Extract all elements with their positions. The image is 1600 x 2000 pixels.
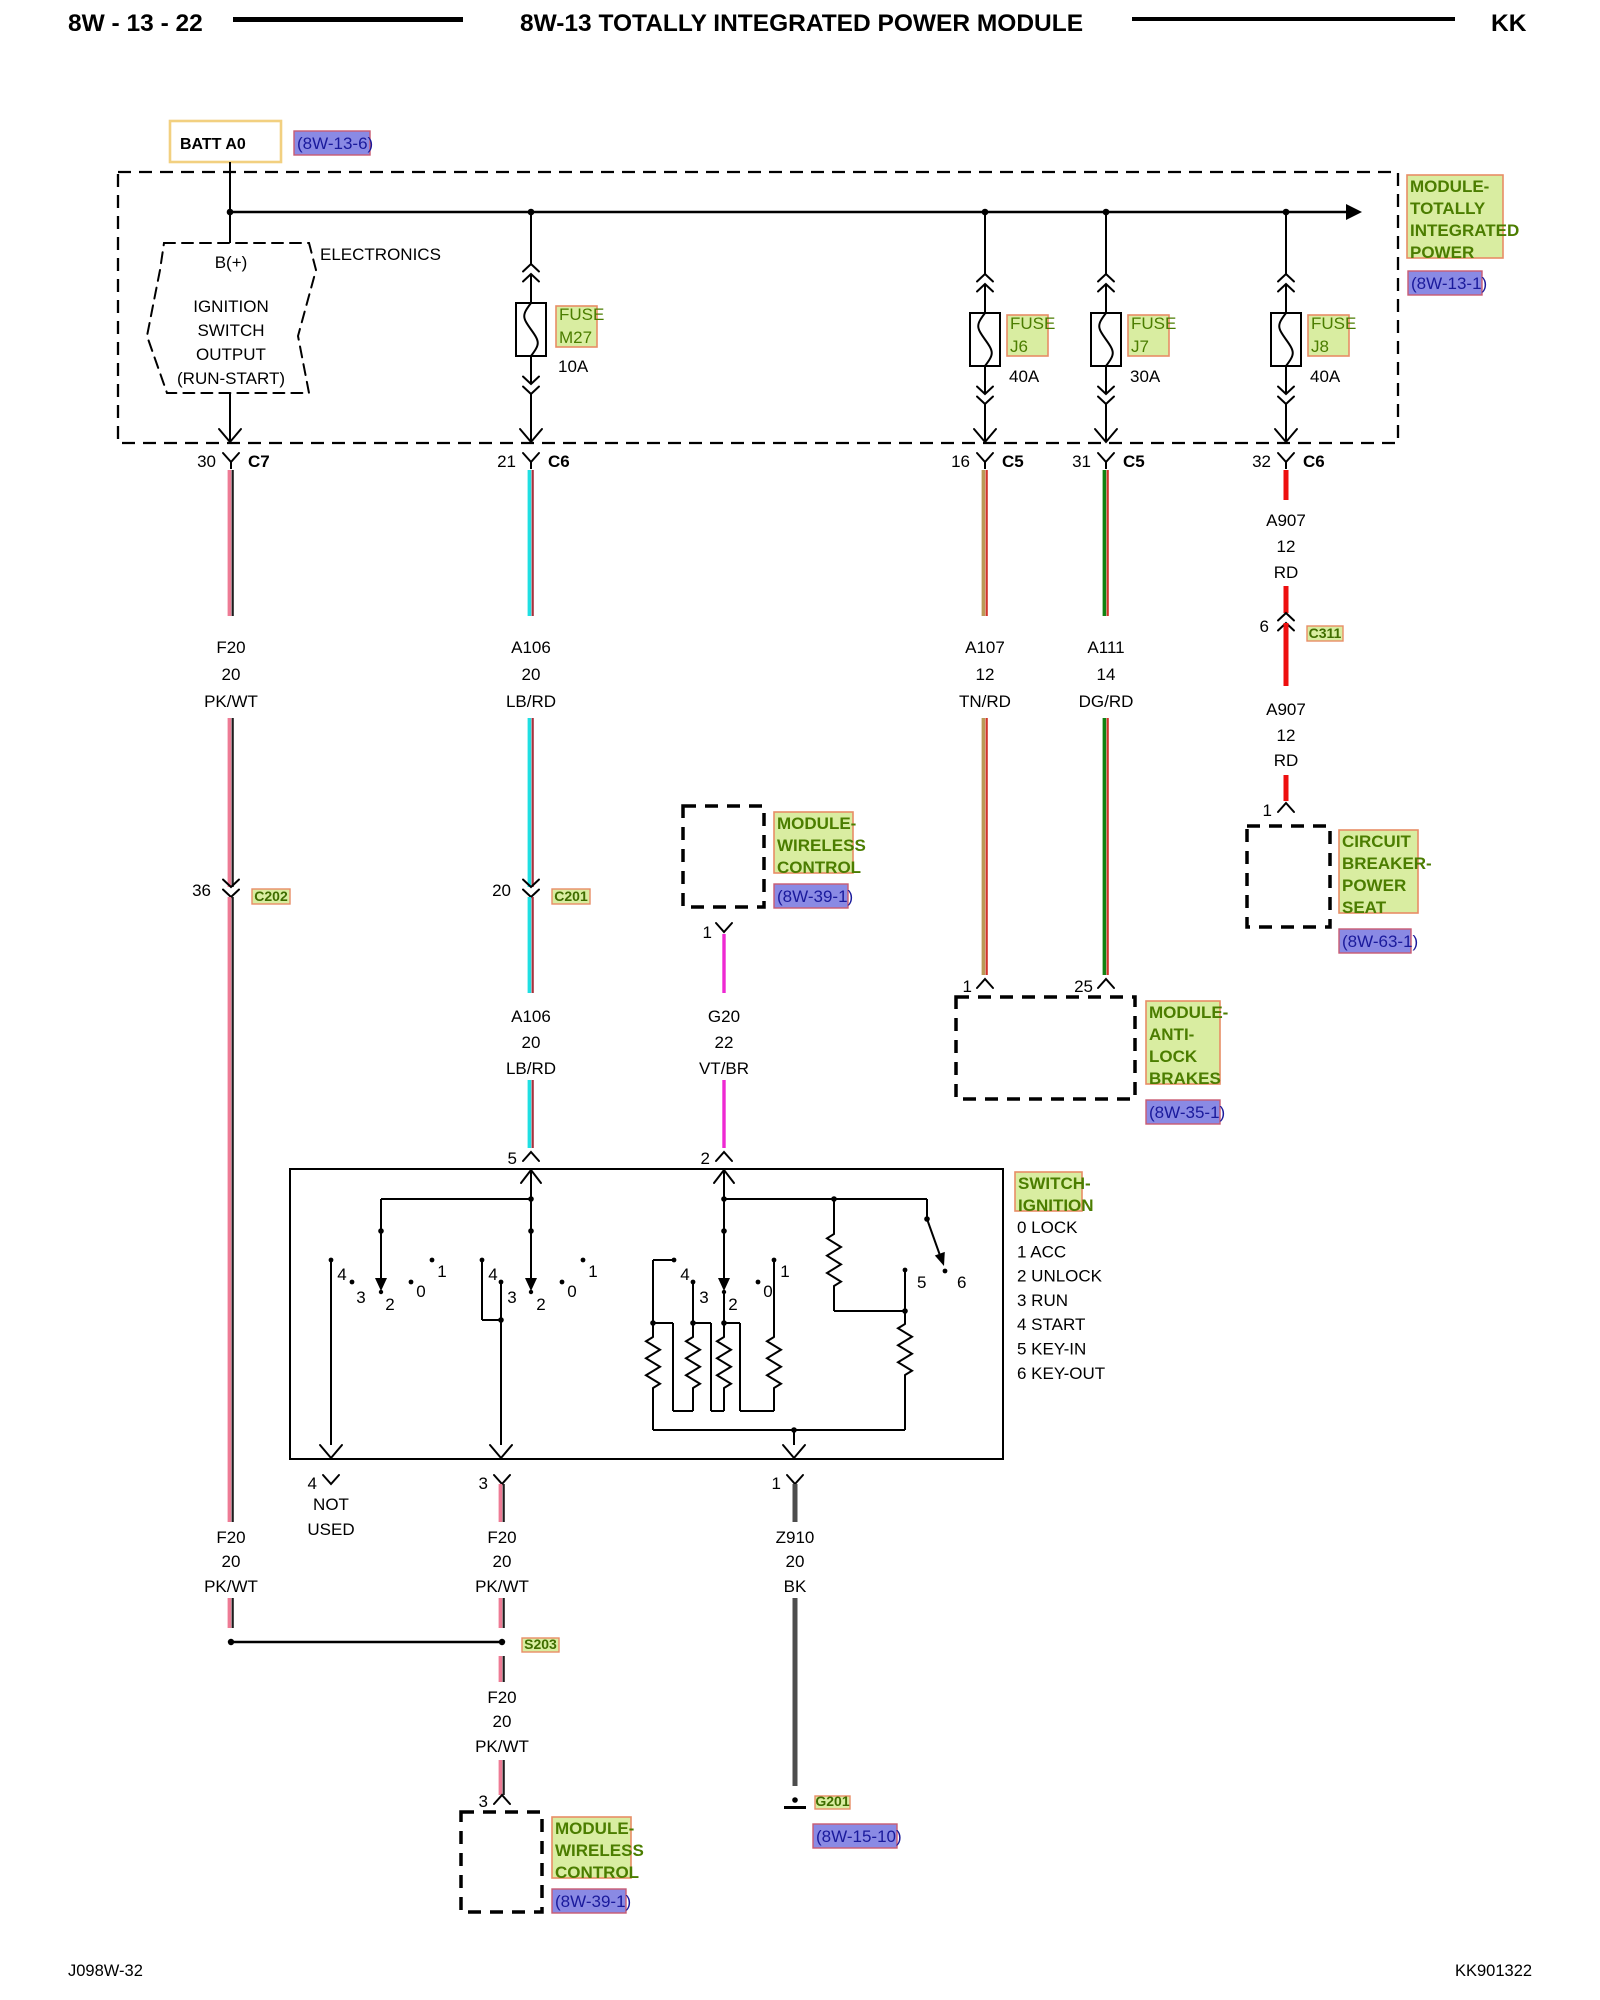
- svg-text:4: 4: [308, 1474, 317, 1493]
- rotary wafer C contact arm: [721, 1228, 727, 1234]
- svg-text:40A: 40A: [1009, 367, 1040, 386]
- label CIRCUIT BREAKER-POWER SEAT: [1339, 830, 1418, 913]
- svg-text:BRAKES: BRAKES: [1149, 1069, 1221, 1088]
- svg-text:36: 36: [192, 881, 211, 900]
- wire switch input pin5 internal: [530, 1169, 532, 1231]
- svg-text:20: 20: [786, 1552, 805, 1571]
- svg-text:NOT: NOT: [313, 1495, 349, 1514]
- wire internal top bus to key switch: [724, 1198, 927, 1200]
- wire series link R3 top to R4 bottom: [724, 1322, 740, 1324]
- svg-text:2: 2: [385, 1295, 394, 1314]
- svg-text:20: 20: [522, 1033, 541, 1052]
- svg-text:3: 3: [479, 1474, 488, 1493]
- svg-text:12: 12: [1277, 537, 1296, 556]
- svg-text:CONTROL: CONTROL: [555, 1863, 639, 1882]
- svg-text:F20: F20: [487, 1688, 516, 1707]
- svg-text:C6: C6: [548, 452, 570, 471]
- svg-text:20: 20: [493, 1712, 512, 1731]
- svg-text:CONTROL: CONTROL: [777, 858, 861, 877]
- svg-text:RD: RD: [1274, 751, 1299, 770]
- svg-text:OUTPUT: OUTPUT: [196, 345, 266, 364]
- wire wafer C position3 to resistor R2: [692, 1282, 694, 1337]
- module box MODULE-WIRELESS CONTROL dashed: [683, 806, 764, 907]
- wire A106 LB/RD segment below C201: [528, 897, 532, 993]
- svg-text:MODULE-: MODULE-: [1149, 1003, 1228, 1022]
- svg-text:C201: C201: [554, 888, 588, 904]
- svg-text:3: 3: [507, 1288, 516, 1307]
- svg-text:F20: F20: [216, 638, 245, 657]
- svg-text:8W - 13 - 22: 8W - 13 - 22: [68, 10, 203, 37]
- wire A111 DG/RD segment from C5: [1103, 470, 1107, 616]
- svg-text:0: 0: [567, 1282, 576, 1301]
- reference label 8W-63-1: [1339, 929, 1411, 953]
- svg-text:2 UNLOCK: 2 UNLOCK: [1017, 1267, 1103, 1286]
- svg-text:A907: A907: [1266, 700, 1306, 719]
- fuse J7 label: [1128, 315, 1169, 356]
- resistor R5 key lamp: [833, 1199, 835, 1234]
- wafer C contact points 4 3 2 0 1: [672, 1258, 677, 1263]
- wire F20 PK/WT segment below C202: [228, 897, 232, 1522]
- label S203: [522, 1638, 559, 1652]
- svg-text:C311: C311: [1309, 625, 1342, 641]
- svg-text:25: 25: [1074, 977, 1093, 996]
- resistor R6 key-in: [904, 1311, 906, 1324]
- svg-text:J7: J7: [1131, 337, 1149, 356]
- svg-text:A107: A107: [965, 638, 1005, 657]
- svg-text:FUSE: FUSE: [1311, 314, 1356, 333]
- label SWITCH-IGNITION: [1015, 1172, 1082, 1211]
- svg-text:A111: A111: [1087, 638, 1124, 657]
- svg-text:30A: 30A: [1130, 367, 1161, 386]
- svg-text:(8W-13-6): (8W-13-6): [297, 134, 373, 153]
- svg-text:C5: C5: [1002, 452, 1024, 471]
- svg-text:6: 6: [1260, 617, 1269, 636]
- svg-text:5: 5: [917, 1273, 926, 1292]
- svg-text:C7: C7: [248, 452, 270, 471]
- svg-text:16: 16: [951, 452, 970, 471]
- wire series link R1 top to R2 bottom: [653, 1322, 673, 1324]
- svg-text:ANTI-: ANTI-: [1149, 1025, 1194, 1044]
- svg-text:3: 3: [479, 1792, 488, 1811]
- resistor R1: [646, 1337, 660, 1388]
- wire F20 PK/WT from switch pin 3: [499, 1484, 503, 1522]
- node BATT A0: [170, 121, 281, 162]
- svg-text:Z910: Z910: [776, 1528, 815, 1547]
- svg-text:3 RUN: 3 RUN: [1017, 1291, 1068, 1310]
- svg-text:12: 12: [976, 665, 995, 684]
- svg-text:14: 14: [1097, 665, 1116, 684]
- svg-text:J8: J8: [1311, 337, 1329, 356]
- svg-text:KK901322: KK901322: [1455, 1962, 1532, 1980]
- fuse J6 drop wire with chevrons and arrow: [984, 212, 986, 274]
- svg-text:MODULE-: MODULE-: [1410, 177, 1489, 196]
- svg-text:WIRELESS: WIRELESS: [555, 1841, 644, 1860]
- wire F20 PK/WT below splice: [499, 1656, 503, 1682]
- svg-text:C202: C202: [254, 888, 288, 904]
- svg-text:LB/RD: LB/RD: [506, 1059, 556, 1078]
- wire ground bus to output 1: [793, 1430, 795, 1445]
- svg-text:20: 20: [522, 665, 541, 684]
- wire wafer B positions 4 and 3 to output 3: [481, 1260, 483, 1320]
- svg-text:LB/RD: LB/RD: [506, 692, 556, 711]
- svg-text:FUSE: FUSE: [1010, 314, 1055, 333]
- wire G20 VT/BR upper segment: [722, 934, 725, 993]
- rotary wafer A contact arm: [378, 1228, 384, 1234]
- svg-text:J098W-32: J098W-32: [68, 1962, 143, 1980]
- svg-text:POWER: POWER: [1410, 243, 1474, 262]
- svg-text:(8W-39-1): (8W-39-1): [777, 887, 853, 906]
- wire F20 PK/WT segment to splice S203: [228, 1598, 232, 1628]
- svg-text:PK/WT: PK/WT: [475, 1737, 529, 1756]
- svg-text:MODULE-: MODULE-: [777, 814, 856, 833]
- svg-text:CIRCUIT: CIRCUIT: [1342, 832, 1412, 851]
- reference label 8W-35-1: [1146, 1100, 1220, 1124]
- wire F20 PK/WT segment to C202: [228, 718, 232, 887]
- header rule right: [1132, 17, 1455, 21]
- svg-text:A106: A106: [511, 638, 551, 657]
- svg-text:1: 1: [588, 1262, 597, 1281]
- contact point 5 KEY-IN: [903, 1268, 908, 1273]
- resistor R4: [767, 1337, 781, 1388]
- bus arrowhead: [1346, 204, 1362, 220]
- svg-text:INTEGRATED: INTEGRATED: [1410, 221, 1519, 240]
- svg-text:SWITCH-: SWITCH-: [1018, 1174, 1091, 1193]
- svg-text:4: 4: [488, 1265, 497, 1284]
- fuse M27 drop wire with chevrons and arrow: [530, 212, 532, 264]
- module box MODULE-ANTI-LOCK BRAKES dashed: [956, 997, 1135, 1099]
- label MODULE-ANTI-LOCK BRAKES: [1146, 1001, 1220, 1084]
- wire main battery bus: [230, 211, 1346, 214]
- wire internal ground bus: [653, 1429, 905, 1431]
- svg-text:3: 3: [356, 1288, 365, 1307]
- svg-text:PK/WT: PK/WT: [204, 692, 258, 711]
- wafer B contact points 4 3 2 0 1: [480, 1258, 485, 1263]
- reference label 8W-39-1 bottom: [552, 1889, 626, 1913]
- svg-text:BREAKER-: BREAKER-: [1342, 854, 1432, 873]
- resistor R2: [686, 1337, 700, 1388]
- svg-text:6: 6: [957, 1273, 966, 1292]
- svg-text:4 START: 4 START: [1017, 1315, 1085, 1334]
- svg-text:USED: USED: [307, 1520, 354, 1539]
- svg-text:1: 1: [1263, 801, 1272, 820]
- svg-text:1: 1: [963, 977, 972, 996]
- junction node at hexagon drop: [227, 209, 234, 216]
- svg-text:1: 1: [780, 1262, 789, 1281]
- junction node at fuse J7 drop: [1103, 209, 1110, 216]
- svg-text:TN/RD: TN/RD: [959, 692, 1011, 711]
- svg-text:10A: 10A: [558, 357, 589, 376]
- svg-text:(8W-13-1): (8W-13-1): [1411, 274, 1487, 293]
- svg-text:(RUN-START): (RUN-START): [177, 369, 285, 388]
- svg-text:PK/WT: PK/WT: [204, 1577, 258, 1596]
- fuse J7 drop wire with chevrons and arrow: [1105, 212, 1107, 274]
- svg-text:RD: RD: [1274, 563, 1299, 582]
- svg-text:A106: A106: [511, 1007, 551, 1026]
- svg-text:FUSE: FUSE: [1131, 314, 1176, 333]
- wire Z910 BK to ground: [793, 1598, 798, 1786]
- wire from BATT A0 down into TIPM: [229, 162, 231, 243]
- wire wafer C position1 to resistor R4: [773, 1260, 775, 1337]
- svg-text:22: 22: [715, 1033, 734, 1052]
- wire A111 DG/RD segment to ABS pin 25: [1103, 718, 1107, 975]
- label MODULE-WIRELESS CONTROL bottom: [552, 1817, 631, 1878]
- header rule left: [233, 17, 463, 22]
- wire hexagon to connector 30 with arrow: [229, 393, 231, 441]
- wire A907 RD segment from C6: [1284, 470, 1289, 500]
- reference label 8W-15-10: [813, 1824, 897, 1848]
- svg-text:(8W-63-1): (8W-63-1): [1342, 932, 1418, 951]
- svg-text:31: 31: [1072, 452, 1091, 471]
- svg-text:20: 20: [492, 881, 511, 900]
- svg-text:4: 4: [680, 1265, 689, 1284]
- fuse M27 label: [556, 306, 597, 347]
- label G201: [815, 1796, 850, 1809]
- svg-text:BATT A0: BATT A0: [180, 136, 246, 153]
- component box SWITCH-IGNITION outline: [290, 1169, 1003, 1459]
- wire F20 PK/WT segment from C7: [228, 470, 232, 616]
- svg-text:F20: F20: [216, 1528, 245, 1547]
- wire R5 to contact 5: [834, 1310, 905, 1312]
- svg-text:IGNITION: IGNITION: [193, 297, 269, 316]
- svg-text:3: 3: [699, 1288, 708, 1307]
- svg-text:2: 2: [701, 1149, 710, 1168]
- junction node at fuse J8 drop: [1283, 209, 1290, 216]
- svg-text:5: 5: [508, 1149, 517, 1168]
- svg-text:5 KEY-IN: 5 KEY-IN: [1017, 1340, 1086, 1359]
- wire F20 PK/WT to splice S203: [499, 1598, 503, 1628]
- wafer A contact points 4 3 2 0 1: [329, 1258, 334, 1263]
- svg-text:6 KEY-OUT: 6 KEY-OUT: [1017, 1364, 1105, 1383]
- svg-text:12: 12: [1277, 726, 1296, 745]
- svg-text:IGNITION: IGNITION: [1018, 1196, 1094, 1215]
- svg-text:(8W-39-1): (8W-39-1): [555, 1892, 631, 1911]
- svg-text:A907: A907: [1266, 511, 1306, 530]
- wire A106 LB/RD segment to switch pin 5: [528, 1080, 532, 1148]
- svg-text:21: 21: [497, 452, 516, 471]
- wire internal cross to wafer A: [381, 1198, 531, 1200]
- svg-text:KK: KK: [1491, 10, 1527, 37]
- wire A907 RD segment to circuit breaker: [1284, 775, 1289, 801]
- wire A106 LB/RD segment from C6: [528, 470, 532, 616]
- svg-text:VT/BR: VT/BR: [699, 1059, 749, 1078]
- wire wafer C position2 to resistor R3: [723, 1291, 725, 1337]
- svg-text:J6: J6: [1010, 337, 1028, 356]
- key switch arm to contact 6: [926, 1199, 928, 1219]
- svg-text:LOCK: LOCK: [1149, 1047, 1198, 1066]
- svg-text:32: 32: [1252, 452, 1271, 471]
- svg-text:1: 1: [703, 923, 712, 942]
- svg-text:(8W-15-10): (8W-15-10): [816, 1827, 902, 1846]
- svg-text:FUSE: FUSE: [559, 305, 604, 324]
- svg-text:SWITCH: SWITCH: [197, 321, 264, 340]
- svg-text:40A: 40A: [1310, 367, 1341, 386]
- ground G201 symbol: [792, 1797, 798, 1803]
- module box TIPM dashed outline: [118, 172, 1398, 443]
- svg-text:C5: C5: [1123, 452, 1145, 471]
- component box CIRCUIT BREAKER-POWER SEAT dashed: [1247, 826, 1330, 927]
- wire A907 RD segment to C311: [1284, 586, 1289, 613]
- svg-text:0: 0: [763, 1282, 772, 1301]
- label MODULE-TOTALLY INTEGRATED POWER: [1407, 175, 1503, 258]
- module box MODULE-WIRELESS CONTROL bottom dashed: [461, 1812, 542, 1912]
- svg-text:S203: S203: [524, 1636, 557, 1652]
- wire Z910 BK from switch pin 1: [793, 1484, 798, 1522]
- svg-text:2: 2: [536, 1295, 545, 1314]
- wire switch input pin2 internal: [723, 1169, 725, 1231]
- svg-text:(8W-35-1): (8W-35-1): [1149, 1103, 1225, 1122]
- svg-text:PK/WT: PK/WT: [475, 1577, 529, 1596]
- svg-text:B(+): B(+): [215, 253, 248, 272]
- svg-text:M27: M27: [559, 328, 592, 347]
- reference label 8W-39-1: [774, 884, 848, 908]
- svg-text:1 ACC: 1 ACC: [1017, 1242, 1066, 1261]
- wire wafer C position4 to resistor R1: [653, 1259, 674, 1261]
- node IGNITION SWITCH OUTPUT dashed hexagon: [147, 243, 316, 393]
- svg-text:1: 1: [437, 1262, 446, 1281]
- label MODULE-WIRELESS CONTROL: [774, 812, 853, 873]
- svg-text:2: 2: [728, 1295, 737, 1314]
- svg-text:8W-13 TOTALLY INTEGRATED POWER: 8W-13 TOTALLY INTEGRATED POWER MODULE: [520, 10, 1083, 37]
- svg-text:G20: G20: [708, 1007, 740, 1026]
- wire A107 TN/RD segment to ABS pin 1: [982, 718, 986, 975]
- svg-text:20: 20: [222, 1552, 241, 1571]
- fuse J6 label: [1007, 315, 1048, 356]
- splice S203 crossbar: [231, 1641, 502, 1644]
- svg-text:F20: F20: [487, 1528, 516, 1547]
- wire wafer A position4 to NOT USED output: [330, 1260, 332, 1445]
- svg-text:SEAT: SEAT: [1342, 898, 1387, 917]
- svg-text:20: 20: [493, 1552, 512, 1571]
- svg-text:30: 30: [197, 452, 216, 471]
- svg-text:BK: BK: [784, 1577, 807, 1596]
- svg-text:0 LOCK: 0 LOCK: [1017, 1218, 1078, 1237]
- svg-text:C6: C6: [1303, 452, 1325, 471]
- svg-text:1: 1: [772, 1474, 781, 1493]
- wire A106 LB/RD segment to C201: [528, 718, 532, 887]
- svg-text:4: 4: [337, 1265, 346, 1284]
- fuse J8 drop wire with chevrons and arrow: [1285, 212, 1287, 274]
- svg-text:0: 0: [416, 1282, 425, 1301]
- svg-text:TOTALLY: TOTALLY: [1410, 199, 1486, 218]
- svg-text:ELECTRONICS: ELECTRONICS: [320, 245, 441, 264]
- svg-text:G201: G201: [815, 1793, 849, 1809]
- svg-text:MODULE-: MODULE-: [555, 1819, 634, 1838]
- svg-text:POWER: POWER: [1342, 876, 1406, 895]
- svg-text:20: 20: [222, 665, 241, 684]
- wire F20 PK/WT to wireless module pin 3: [499, 1760, 503, 1795]
- contact point 6 KEY-OUT: [943, 1269, 948, 1274]
- fuse J8 label: [1308, 315, 1349, 356]
- svg-text:WIRELESS: WIRELESS: [777, 836, 866, 855]
- svg-text:DG/RD: DG/RD: [1079, 692, 1134, 711]
- wire A907 RD below C311: [1284, 623, 1289, 686]
- wire G20 VT/BR segment to switch pin 2: [722, 1080, 725, 1148]
- reference label 8W-13-6: [294, 131, 370, 155]
- reference label 8W-13-1: [1408, 271, 1482, 295]
- junction node at fuse M27 drop: [528, 209, 535, 216]
- wire series link R2 top to R3 bottom: [693, 1322, 711, 1324]
- junction node at fuse J6 drop: [982, 209, 989, 216]
- rotary wafer B contact arm: [528, 1228, 534, 1234]
- resistor R3: [717, 1337, 731, 1388]
- wire A107 TN/RD segment from C5: [982, 470, 986, 616]
